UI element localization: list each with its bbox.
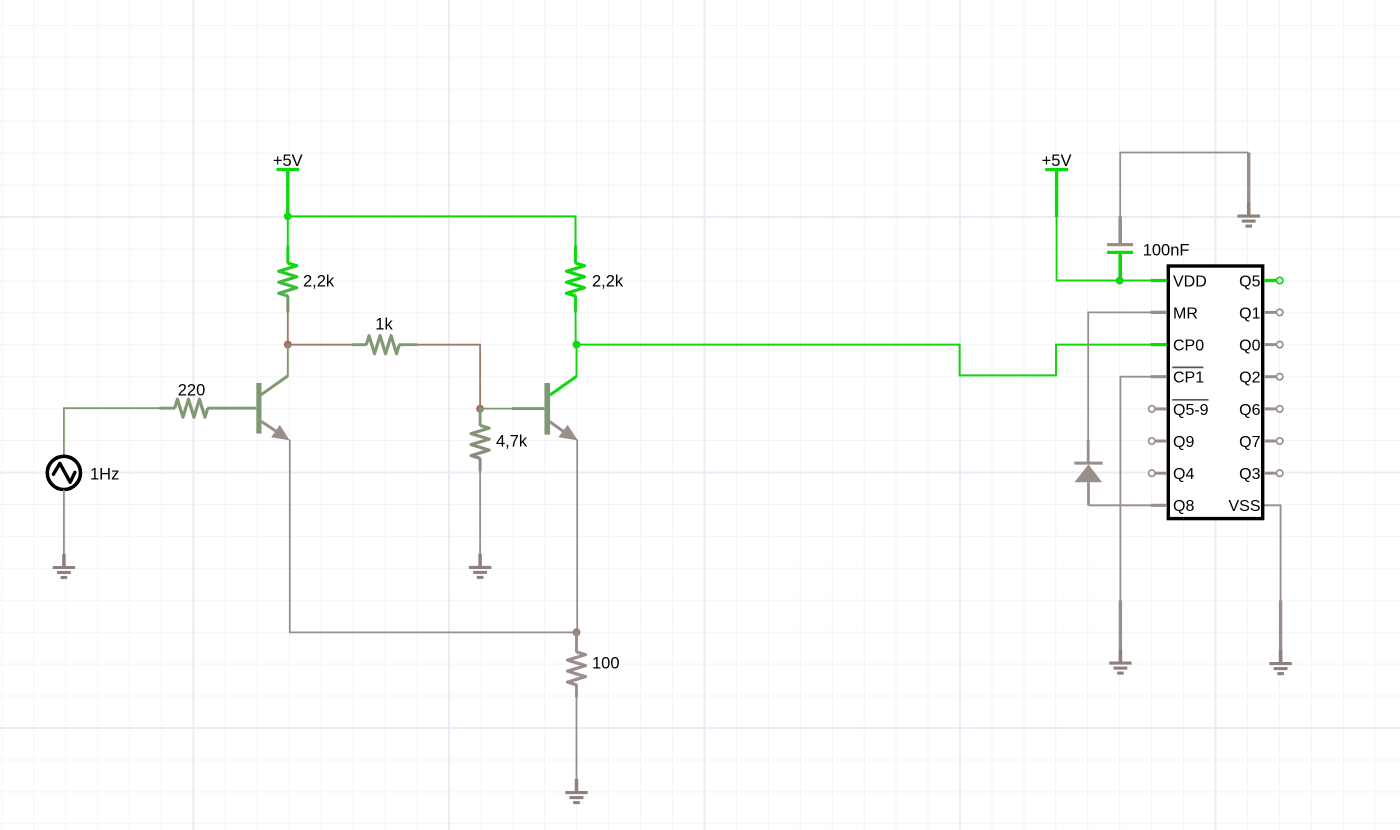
svg-text:Q7: Q7 — [1239, 434, 1260, 451]
wire VSS to ground — [1264, 505, 1281, 663]
svg-text:+5V: +5V — [1042, 152, 1072, 170]
wire R6 to ground — [576, 697, 578, 779]
wire Q2 emitter down to node D — [576, 440, 578, 633]
node D (emitters / R6 100) — [573, 628, 581, 636]
pin Q2 (right) — [1239, 370, 1283, 387]
wire +5V right to node F — [1057, 217, 1152, 281]
svg-text:VSS: VSS — [1228, 498, 1260, 515]
wire node C to Q2 base — [480, 408, 512, 410]
power +5V (left) — [273, 152, 303, 216]
wire R1 bottom to node B — [287, 312, 289, 344]
svg-text:1k: 1k — [375, 316, 393, 334]
svg-text:1Hz: 1Hz — [90, 465, 119, 483]
wire source to R3 220 — [64, 408, 160, 455]
wire node E to CP0 (green) — [577, 345, 1152, 376]
svg-text:Q6: Q6 — [1239, 402, 1260, 419]
pin Q7 (right) — [1239, 434, 1283, 451]
ground (top right) — [1238, 203, 1260, 227]
pin Q8 (left) — [1151, 498, 1195, 515]
node E (Q2 collector / R4) — [573, 341, 581, 349]
wire CP1 to ground — [1120, 377, 1151, 663]
node C (Q2 base) — [476, 405, 484, 413]
wire Q1 emitter down to bottom rail — [290, 440, 577, 633]
pin CP0 (left) — [1151, 338, 1205, 355]
pin Q4 (left) — [1149, 466, 1195, 483]
svg-text:Q0: Q0 — [1239, 338, 1260, 355]
svg-text:Q8: Q8 — [1173, 498, 1194, 515]
svg-text:Q4: Q4 — [1173, 466, 1194, 483]
resistor R5 4,7k — [471, 409, 528, 472]
svg-text:+5V: +5V — [273, 152, 303, 170]
pin Q3 (right) — [1239, 466, 1283, 483]
wire MR to diode — [1088, 312, 1151, 463]
svg-text:2,2k: 2,2k — [303, 273, 335, 291]
pin MR (left) — [1151, 305, 1198, 322]
resistor R4 2,2k (right, green) — [567, 246, 624, 345]
resistor R6 100 — [568, 632, 620, 697]
ground (VSS) — [1269, 650, 1291, 674]
transistor Q1 — [224, 376, 290, 441]
ground (R5) — [469, 554, 491, 578]
overline CP1 — [1172, 366, 1203, 368]
ground (source) — [53, 554, 75, 578]
svg-text:2,2k: 2,2k — [592, 273, 624, 291]
IC U1 4017 body — [1168, 266, 1262, 519]
transistor Q2 — [512, 376, 578, 440]
ground (R6) — [565, 779, 587, 803]
wire Q2 collector to node E — [576, 345, 578, 377]
pin CP1 (left) — [1151, 370, 1205, 387]
pin Q6 (right) — [1239, 402, 1283, 419]
pin VSS (right) — [1228, 498, 1260, 515]
wire source to ground — [63, 490, 65, 555]
pin Q1 (right) — [1239, 305, 1283, 322]
diode D1 — [1074, 463, 1102, 505]
resistor R3 220 — [159, 382, 224, 418]
wire R5 to ground — [479, 471, 481, 554]
resistor R1 2,2k (left) — [279, 216, 335, 312]
svg-text:Q9: Q9 — [1173, 434, 1194, 451]
svg-text:4,7k: 4,7k — [496, 433, 528, 451]
wire +5V rail to right 2,2k — [288, 216, 576, 246]
capacitor C1 100nF — [1107, 216, 1189, 281]
svg-text:220: 220 — [178, 382, 206, 400]
svg-text:100nF: 100nF — [1143, 241, 1190, 259]
wire node B to R2 1k — [288, 344, 353, 346]
svg-text:VDD: VDD — [1173, 273, 1207, 290]
svg-text:CP1: CP1 — [1173, 370, 1204, 387]
pin VDD (left) — [1151, 273, 1207, 290]
node B (R1/R2/Q1 collector) — [284, 341, 292, 349]
ground (CP1) — [1109, 650, 1131, 674]
pin Q5-9 (left) — [1149, 402, 1209, 419]
pin Q9 (left) — [1149, 434, 1195, 451]
pin Q0 (right) — [1239, 338, 1283, 355]
svg-text:CP0: CP0 — [1173, 338, 1204, 355]
voltage source V1 1Hz — [47, 456, 119, 489]
svg-text:MR: MR — [1173, 305, 1198, 322]
node F (VDD junction) — [1116, 277, 1124, 285]
svg-text:Q3: Q3 — [1239, 466, 1260, 483]
power +5V (right) — [1042, 152, 1072, 217]
node: +5V left junction — [284, 212, 292, 220]
resistor R2 1k — [352, 316, 418, 354]
svg-text:100: 100 — [592, 655, 620, 673]
wire cap top to ground (top right) — [1120, 153, 1249, 217]
wire R2 to node C — [417, 345, 480, 409]
svg-text:Q5-9: Q5-9 — [1173, 402, 1209, 419]
svg-text:Q5: Q5 — [1239, 273, 1260, 290]
wire diode to Q8 — [1089, 504, 1152, 506]
wire Q1 collector to node B — [287, 345, 289, 377]
svg-text:Q2: Q2 — [1239, 370, 1260, 387]
overline Q5-9 — [1172, 399, 1208, 401]
svg-text:Q1: Q1 — [1239, 305, 1260, 322]
pin Q5 (right) — [1239, 273, 1283, 290]
